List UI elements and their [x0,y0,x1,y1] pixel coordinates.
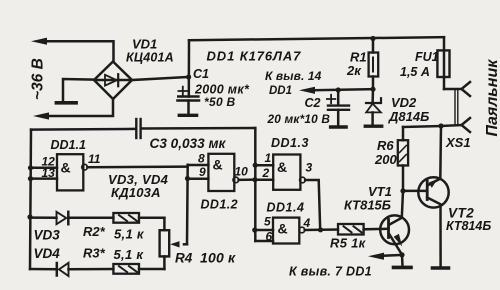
svg-text:9: 9 [199,165,206,179]
resistor R1 [372,39,375,53]
ground at VT1 [394,266,412,270]
svg-text:DD1.2: DD1.2 [201,198,238,212]
svg-text:DD1: DD1 [269,85,292,97]
wire pin 13 [31,177,58,180]
wire pin14 feed [313,89,373,90]
node C1 plus sign [178,87,187,96]
svg-text:КЦ401А: КЦ401А [126,51,174,65]
resistor R6 [403,126,441,127]
svg-text:5,1 к: 5,1 к [114,227,145,242]
wire DD1.3 out down to node [305,180,320,230]
node pin7 arrowhead [368,253,384,260]
svg-text:Д814Б: Д814Б [388,109,429,124]
svg-text:C1: C1 [193,67,209,81]
svg-text:DD1 К176ЛА7: DD1 К176ЛА7 [207,49,302,64]
svg-text:VD3: VD3 [34,228,61,243]
svg-text:&: & [278,221,288,237]
svg-text:~36 В: ~36 В [30,58,47,100]
svg-text:&: & [277,159,287,175]
svg-text:5,1 к: 5,1 к [114,247,145,262]
svg-text:3: 3 [306,161,313,175]
wire bridge plus to C1 node [132,77,189,80]
svg-text:1,5 А: 1,5 А [400,65,430,79]
svg-text:C3 0,033 мк: C3 0,033 мк [150,136,227,151]
wire VT2 base [403,190,427,193]
svg-text:200: 200 [374,152,397,167]
node junction pin5 [252,227,257,232]
wire +V riser [188,40,191,96]
wire DD1.4 out to R5 [305,228,338,231]
wire top supply bus [189,37,444,40]
gate DD1.4 [273,218,299,244]
plug iron double line [455,90,458,125]
wire DD1.1 out to DD1.2 in [87,165,187,168]
svg-text:DD1.1: DD1.1 [51,138,86,152]
wire pin 5 [255,229,273,232]
capacitor C2 [337,90,340,104]
svg-text:К выв. 14: К выв. 14 [265,69,322,83]
wire AC bottom arrow line [46,99,113,116]
wire pin 9 [188,178,209,181]
transistor VT1 [380,215,409,244]
svg-text:8: 8 [198,152,205,166]
ground at VT2 [433,266,449,270]
svg-text:2к: 2к [346,63,362,78]
wire XS1 to VT2 emitter [439,126,442,179]
svg-text:R5 1к: R5 1к [330,236,367,251]
svg-text:11: 11 [88,152,101,166]
resistor R5 [338,224,364,235]
node junction C2 top [336,87,341,92]
socket XS1 upper contact [444,88,462,91]
gate DD1.3 [273,155,300,190]
node AC bottom arrowhead [33,112,49,119]
capacitor C3 [31,128,135,131]
node junction R1 top [370,36,375,41]
svg-text:Паяльник: Паяльник [484,59,500,137]
svg-text:*50 В: *50 В [204,95,236,109]
svg-text:DD1.3: DD1.3 [271,136,309,150]
ground at C2 [331,125,347,128]
node junction pin2 [252,177,257,182]
node junction XS1/R6 [438,123,443,128]
svg-text:XS1: XS1 [445,135,471,150]
wire pin 6 [255,240,273,243]
svg-text:R2*: R2* [83,224,106,239]
wire DD1.2 out [239,178,254,181]
ground at C1 [179,114,196,117]
svg-text:КТ815Б: КТ815Б [344,198,391,213]
node junction pin9 [185,176,190,181]
gate DD1.2 [208,154,234,191]
node junction pin12 [28,165,33,170]
svg-text:К выв. 7 DD1: К выв. 7 DD1 [289,265,372,279]
svg-text:C2: C2 [305,96,321,110]
node junction pin13 [28,176,33,181]
wire pin 2 [255,178,273,181]
socket XS1 lower contact [441,125,462,126]
svg-text:10: 10 [235,165,249,179]
node AC top arrowhead [31,38,47,45]
node junction pin1 [253,163,258,168]
fuse FU1 [443,37,446,89]
ground at bridge left [63,79,94,102]
svg-text:5: 5 [264,215,271,229]
diode inside VD1 bridge [97,79,129,82]
svg-text:6: 6 [266,230,273,244]
node junction VT1 emitter [399,252,404,257]
diode VD4 [30,268,57,271]
wire pin 12 [31,167,58,170]
resistor R3 [113,264,139,274]
svg-text:FU1: FU1 [415,50,439,64]
node C2 plus sign [327,95,335,103]
svg-text:20 мк*10 В: 20 мк*10 В [267,112,331,126]
ground at VD2 [365,124,381,127]
diode VD3 [30,216,57,219]
svg-text:R3*: R3* [83,246,106,261]
wire pin7 feed [382,254,402,257]
capacitor C1 [178,95,198,98]
svg-text:VD1: VD1 [132,37,157,52]
svg-text:КД103А: КД103А [111,185,161,200]
node junction bridge/C1 [186,74,191,79]
rectifier VD1 bridge diamond [94,62,132,100]
svg-text:VD2: VD2 [391,95,417,110]
wire input bus DD1.3/1.4 [254,128,257,241]
svg-text:1: 1 [265,151,272,165]
node junction VT2 base [400,188,405,193]
svg-text:КТ814Б: КТ814Б [446,219,491,233]
node junction outputs 3/4 [318,227,323,232]
trimmer R4 [163,218,166,230]
svg-text:&: & [213,157,223,173]
svg-text:4: 4 [303,216,311,230]
node junction VD3 row [27,214,32,219]
wire pin 1 [255,164,273,167]
wire pin 8 [188,164,209,167]
node junction R1 bottom [370,87,375,92]
svg-text:2: 2 [262,166,270,180]
wire left bus [30,130,31,269]
gate DD1.1 [57,154,83,190]
zener VD2 [371,89,374,103]
svg-text:13: 13 [42,166,56,180]
svg-text:R6: R6 [377,138,394,153]
svg-text:DD1.4: DD1.4 [267,201,305,215]
svg-text:100 к: 100 к [200,250,236,266]
svg-text:VD4: VD4 [34,246,61,261]
transistor VT2 [418,177,448,207]
resistor R2 [113,213,139,223]
wire pins 8/9 bus [186,165,189,245]
wiper arrow R4 [184,243,187,246]
svg-text:R4: R4 [175,251,193,266]
svg-text:&: & [61,160,71,176]
wire AC top arrow line [45,41,114,61]
